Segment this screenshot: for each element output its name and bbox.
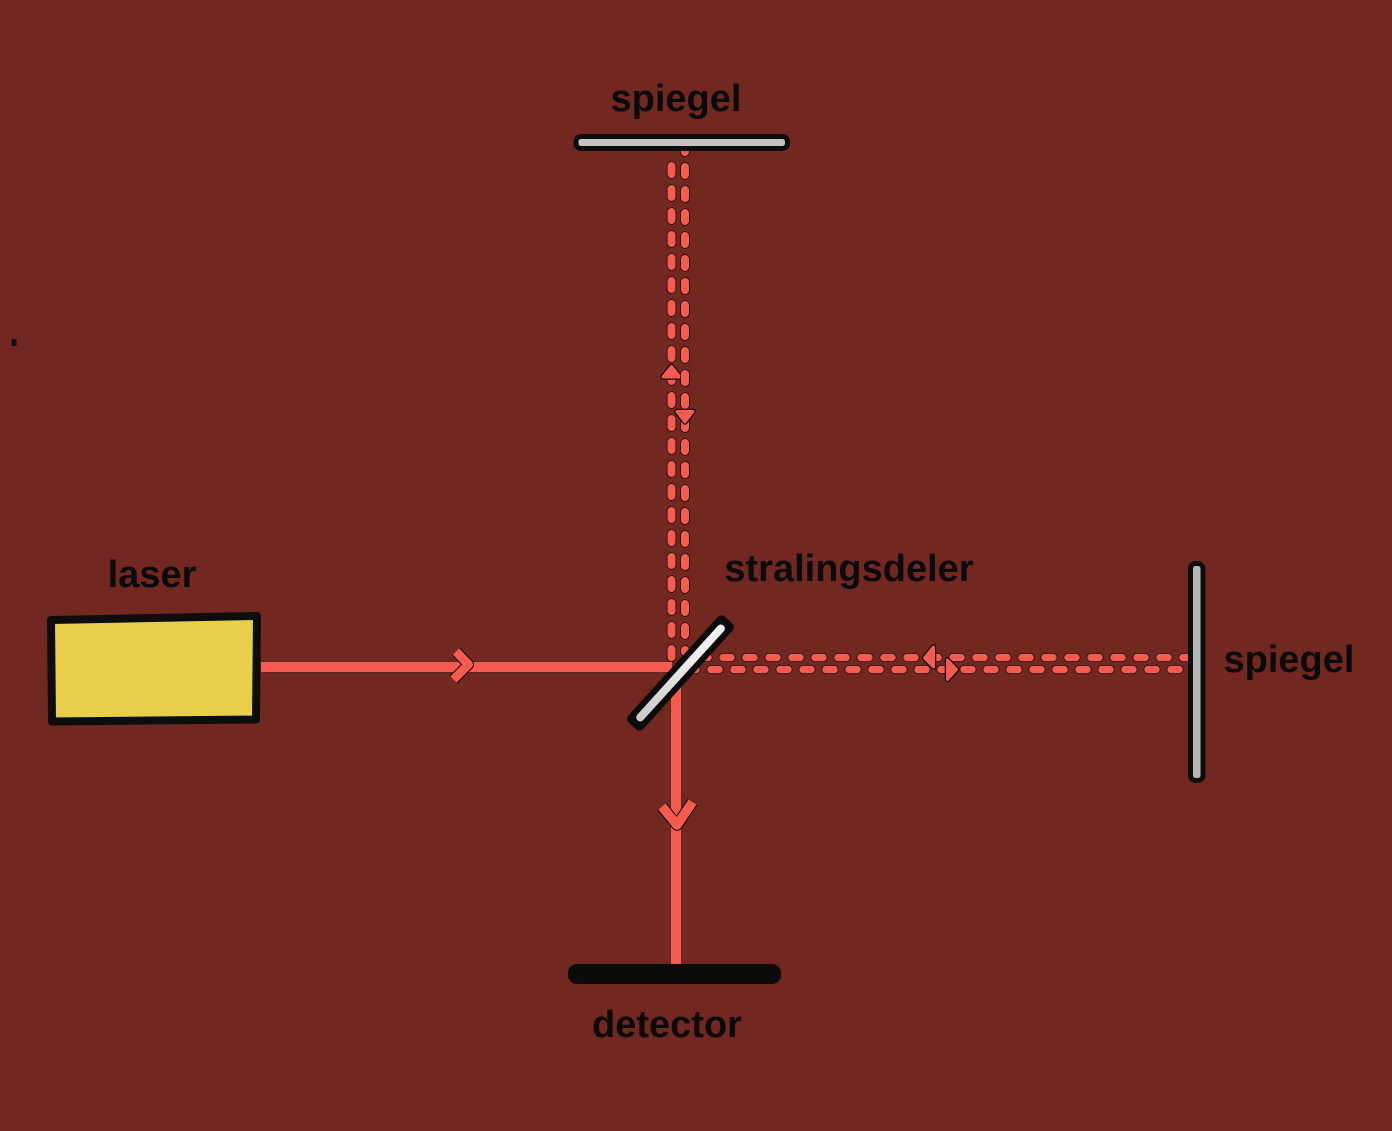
laser box [51, 616, 257, 722]
svg-text:spiegel: spiegel [1224, 639, 1355, 681]
mirror: right [1191, 564, 1204, 781]
arrowhead: down on right strand [677, 412, 693, 423]
arrowhead: beam down [662, 802, 693, 825]
svg-text:spiegel: spiegel [611, 78, 742, 120]
wire: dashed beam splitter to right mirror (bottom strand) [688, 665, 1188, 674]
wire: dashed beam splitter to top mirror (left strand) [667, 155, 677, 660]
svg-text:stralingsdeler: stralingsdeler [724, 548, 973, 590]
wire: dashed beam top mirror to splitter (right strand) [680, 140, 690, 652]
mirror: top [576, 137, 788, 149]
wire: dashed beam right mirror to splitter (top strand) [700, 653, 1188, 662]
svg-text:detector: detector [592, 1004, 742, 1046]
wire: solid beam laser to splitter [261, 661, 672, 673]
stray black dot [12, 339, 17, 346]
svg-text:laser: laser [108, 554, 197, 596]
arrowhead: beam right [454, 652, 469, 680]
wire: solid beam splitter to detector [670, 687, 682, 966]
arrowhead: up on left strand [663, 367, 680, 378]
arrowhead: right on bottom strand [948, 660, 957, 680]
beam splitter bar [625, 613, 736, 732]
detector bar [568, 964, 781, 984]
arrowhead: left on top strand [925, 647, 934, 667]
